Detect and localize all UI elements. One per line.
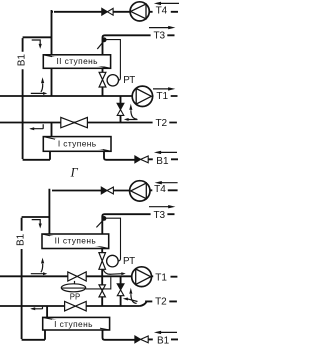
svg-text:I ступень: I ступень bbox=[58, 139, 97, 149]
svg-text:РТ: РТ bbox=[123, 75, 135, 86]
svg-text:Т3: Т3 bbox=[153, 31, 165, 42]
svg-text:I ступень: I ступень bbox=[54, 319, 93, 329]
svg-text:В1: В1 bbox=[157, 336, 170, 346]
svg-text:РТ: РТ bbox=[123, 256, 135, 267]
svg-text:Т2: Т2 bbox=[155, 297, 167, 308]
svg-text:Т1: Т1 bbox=[156, 91, 168, 102]
svg-text:Т4: Т4 bbox=[154, 184, 166, 195]
svg-text:II ступень: II ступень bbox=[55, 236, 97, 246]
svg-text:В1: В1 bbox=[156, 156, 169, 167]
svg-text:В1: В1 bbox=[17, 54, 28, 67]
svg-text:Т3: Т3 bbox=[153, 210, 165, 221]
svg-text:РР: РР bbox=[70, 292, 80, 301]
svg-text:Т4: Т4 bbox=[156, 5, 168, 16]
svg-text:II ступень: II ступень bbox=[56, 56, 98, 66]
svg-text:Т2: Т2 bbox=[155, 118, 167, 129]
svg-text:Г: Г bbox=[70, 166, 79, 180]
svg-text:Т1: Т1 bbox=[155, 273, 167, 284]
svg-text:В1: В1 bbox=[16, 233, 27, 246]
